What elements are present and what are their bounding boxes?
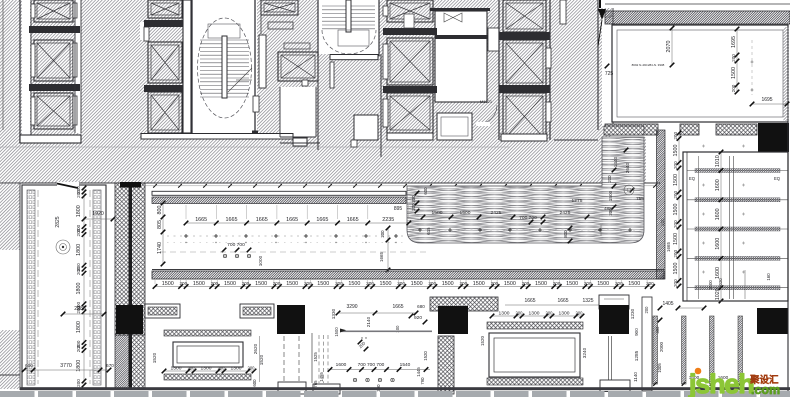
svg-text:1600: 1600 [708, 280, 713, 290]
svg-text:1285: 1285 [634, 350, 639, 361]
svg-text:200: 200 [673, 161, 678, 169]
svg-text:1500: 1500 [628, 281, 640, 287]
svg-text:1500: 1500 [673, 174, 679, 186]
svg-text:1600: 1600 [336, 362, 347, 368]
svg-text:2070: 2070 [666, 41, 672, 53]
svg-text:2425: 2425 [560, 210, 571, 216]
svg-text:1600: 1600 [715, 208, 721, 220]
svg-text:1020: 1020 [718, 278, 723, 288]
svg-text:1665: 1665 [226, 217, 238, 223]
svg-text:1600: 1600 [715, 238, 721, 250]
svg-text:1665: 1665 [524, 298, 535, 304]
svg-text:615: 615 [426, 227, 431, 235]
svg-text:1920: 1920 [92, 211, 104, 217]
svg-text:200: 200 [76, 379, 81, 387]
svg-text:670: 670 [106, 363, 114, 368]
svg-text:805: 805 [157, 220, 163, 229]
svg-text:2825: 2825 [55, 216, 61, 227]
svg-text:1665: 1665 [256, 217, 268, 223]
svg-text:200: 200 [76, 267, 81, 275]
svg-text:1695: 1695 [761, 97, 772, 103]
svg-text:600: 600 [25, 363, 33, 368]
svg-text:1500: 1500 [460, 210, 471, 216]
svg-text:1500: 1500 [348, 281, 360, 287]
svg-text:1665: 1665 [286, 217, 298, 223]
svg-text:1500: 1500 [317, 281, 329, 287]
svg-text:1500: 1500 [193, 281, 205, 287]
svg-text:1005: 1005 [657, 363, 662, 373]
svg-text:1665: 1665 [195, 217, 207, 223]
svg-text:200: 200 [546, 311, 554, 316]
svg-text:1300: 1300 [499, 311, 510, 317]
svg-text:200: 200 [673, 279, 678, 287]
svg-text:755: 755 [636, 196, 644, 201]
svg-text:1500: 1500 [224, 281, 236, 287]
svg-text:2285: 2285 [74, 306, 86, 312]
svg-text:200: 200 [731, 84, 736, 92]
svg-text:2425: 2425 [491, 210, 502, 216]
svg-text:1800: 1800 [76, 244, 82, 256]
svg-text:1500: 1500 [535, 281, 547, 287]
svg-text:1300: 1300 [171, 366, 182, 372]
svg-text:1800: 1800 [76, 283, 82, 295]
svg-text:1500: 1500 [473, 281, 485, 287]
svg-text:2000: 2000 [659, 341, 664, 352]
svg-text:200: 200 [76, 190, 81, 198]
svg-text:1520: 1520 [152, 352, 157, 363]
svg-text:200: 200 [607, 175, 612, 183]
svg-text:2620: 2620 [253, 343, 258, 354]
svg-text:200: 200 [248, 366, 256, 371]
svg-text:200: 200 [731, 54, 736, 62]
svg-text:1300: 1300 [231, 366, 242, 372]
svg-text:680: 680 [417, 304, 425, 309]
svg-text:200: 200 [673, 220, 678, 228]
svg-text:1275: 1275 [572, 198, 583, 204]
svg-text:1500: 1500 [673, 204, 679, 216]
svg-text:1520: 1520 [423, 351, 428, 361]
svg-text:1330: 1330 [331, 308, 336, 319]
svg-text:聚设汇: 聚设汇 [749, 374, 779, 386]
svg-text:725: 725 [605, 71, 614, 77]
svg-text:M1021: M1021 [480, 99, 493, 104]
svg-text:800: 800 [563, 230, 568, 238]
svg-text:3240: 3240 [582, 347, 587, 358]
svg-text:1520: 1520 [480, 335, 485, 346]
svg-text:200: 200 [188, 366, 196, 371]
svg-text:1740: 1740 [157, 242, 163, 254]
svg-text:895: 895 [394, 206, 403, 212]
svg-text:1300: 1300 [201, 366, 212, 372]
svg-text:1665: 1665 [316, 217, 328, 223]
svg-text:8692 N-49C284-N. 3908: 8692 N-49C284-N. 3908 [632, 63, 665, 67]
svg-text:1325: 1325 [582, 298, 593, 304]
svg-text:1445: 1445 [416, 367, 421, 377]
svg-text:1665: 1665 [666, 241, 671, 252]
svg-text:900: 900 [634, 328, 639, 336]
svg-text:600: 600 [252, 379, 257, 387]
svg-text:1230: 1230 [630, 308, 635, 319]
svg-text:200: 200 [673, 250, 678, 258]
svg-text:1500: 1500 [597, 281, 609, 287]
svg-text:200: 200 [516, 311, 524, 316]
svg-text:1500: 1500 [334, 327, 339, 337]
svg-text:1500: 1500 [673, 263, 679, 275]
svg-text:EQ: EQ [689, 176, 696, 181]
svg-text:200: 200 [576, 311, 584, 316]
svg-text:EQ: EQ [774, 176, 781, 181]
svg-text:920: 920 [414, 315, 422, 321]
svg-text:1500: 1500 [255, 281, 267, 287]
svg-text:200: 200 [380, 230, 385, 238]
svg-text:1500: 1500 [566, 281, 578, 287]
svg-text:1440: 1440 [613, 156, 618, 167]
svg-text:1300: 1300 [559, 311, 570, 317]
svg-text:1500: 1500 [432, 210, 443, 216]
svg-text:1695: 1695 [731, 36, 737, 48]
svg-text:765: 765 [313, 380, 318, 388]
svg-text:1500: 1500 [380, 281, 392, 287]
svg-text:600: 600 [423, 187, 428, 195]
svg-text:1665: 1665 [392, 304, 403, 310]
svg-text:1665: 1665 [379, 251, 384, 262]
svg-text:200: 200 [673, 191, 678, 199]
svg-text:300: 300 [655, 326, 660, 334]
svg-text:2140: 2140 [366, 316, 371, 327]
svg-text:1010: 1010 [715, 155, 721, 167]
svg-text:200: 200 [673, 132, 678, 140]
svg-text:1665: 1665 [347, 217, 359, 223]
svg-text:200: 200 [644, 306, 649, 314]
svg-text:1500: 1500 [673, 145, 679, 157]
svg-text:1520: 1520 [259, 354, 264, 365]
svg-text:1600: 1600 [715, 267, 721, 279]
svg-text:1500: 1500 [504, 281, 516, 287]
svg-text:2640: 2640 [625, 162, 630, 173]
svg-text:200: 200 [218, 366, 226, 371]
svg-text:1800: 1800 [76, 205, 82, 217]
svg-text:1500: 1500 [608, 190, 613, 201]
svg-text:790: 790 [420, 377, 425, 385]
svg-text:1020: 1020 [715, 288, 721, 300]
svg-text:1600: 1600 [715, 179, 721, 191]
svg-text:485: 485 [604, 206, 612, 211]
svg-text:1500: 1500 [442, 281, 454, 287]
svg-text:700 700: 700 700 [227, 242, 245, 248]
svg-text:800: 800 [157, 206, 163, 215]
svg-text:700 700: 700 700 [519, 215, 537, 221]
svg-text:200: 200 [76, 344, 81, 352]
svg-text:200: 200 [76, 228, 81, 236]
svg-text:200: 200 [411, 195, 416, 203]
svg-text:2235: 2235 [382, 217, 394, 223]
svg-text:1525: 1525 [313, 352, 318, 362]
svg-text:3770: 3770 [60, 363, 72, 369]
svg-text:3290: 3290 [346, 304, 357, 310]
svg-text:1140: 1140 [633, 372, 638, 382]
svg-text:1500: 1500 [731, 67, 737, 79]
svg-text:1500: 1500 [411, 281, 423, 287]
svg-text:160: 160 [766, 273, 771, 281]
svg-text:1300: 1300 [529, 311, 540, 317]
svg-text:1405: 1405 [662, 301, 673, 307]
svg-text:1500: 1500 [162, 281, 174, 287]
svg-text:1500: 1500 [286, 281, 298, 287]
svg-text:1000: 1000 [258, 255, 263, 266]
svg-text:1665: 1665 [557, 298, 568, 304]
svg-text:1800: 1800 [76, 321, 82, 333]
svg-text:700 700 700: 700 700 700 [358, 362, 385, 368]
svg-text:1540: 1540 [400, 362, 411, 368]
svg-text:1500: 1500 [673, 233, 679, 245]
svg-text:1455: 1455 [319, 372, 324, 382]
